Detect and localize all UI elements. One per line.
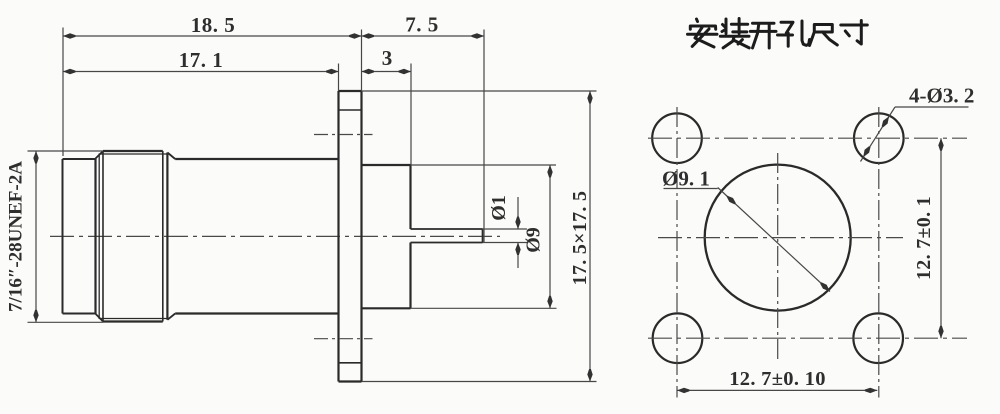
dia 9 ext lines <box>411 164 557 166</box>
thread section (7/16-28UNEF) <box>62 159 64 314</box>
center pin (dia 1) <box>411 228 483 230</box>
flange mounting hole edge lines <box>339 109 362 111</box>
ext line at pin end / 7.5 <box>483 30 485 244</box>
mounting hole bottom-left <box>653 313 703 363</box>
ext line left of thread <box>62 28 64 157</box>
title char An <box>688 19 718 47</box>
centerline left column <box>676 107 678 398</box>
svg-text:4-Ø3. 2: 4-Ø3. 2 <box>909 84 974 108</box>
dimension 17.1 <box>63 71 339 73</box>
svg-text:Ø9. 1: Ø9. 1 <box>662 167 710 191</box>
svg-text:12. 7±0. 10: 12. 7±0. 10 <box>729 368 826 390</box>
17.5x17.5 ext lines <box>362 90 597 92</box>
centerline bottom row <box>648 337 967 339</box>
title char Cun <box>841 21 868 45</box>
thread vertical dim line <box>35 151 37 322</box>
svg-text:3: 3 <box>382 46 393 70</box>
leader through top-right hole <box>861 107 896 162</box>
dimension 7.5 <box>362 35 485 37</box>
flange (square 17.5x17.5, side view) <box>337 91 339 382</box>
svg-text:17. 1: 17. 1 <box>179 48 224 72</box>
title char Zhuang <box>720 19 749 48</box>
arrow up-left on circle <box>726 195 736 204</box>
centerline middle row <box>658 237 903 239</box>
dimension 18.5 <box>63 35 362 37</box>
ext line at rear body end / 3 <box>410 64 412 166</box>
pin end cap <box>482 229 484 243</box>
dia1 dim arrows <box>517 197 519 229</box>
label underline <box>895 106 969 108</box>
svg-text:7/16″-28UNEF-2A: 7/16″-28UNEF-2A <box>6 161 27 312</box>
arrow down-right on circle <box>820 282 830 291</box>
ext line above flange right <box>361 30 363 92</box>
mounting hole bottom-right <box>853 313 903 363</box>
svg-text:Ø9: Ø9 <box>523 227 545 253</box>
dim 12.7+-0.10 (bottom) <box>677 389 877 391</box>
pin dia 1 ext lines <box>483 228 528 230</box>
svg-text:Ø1: Ø1 <box>488 195 510 221</box>
ext line above flange left <box>338 64 340 92</box>
coupling nut (hex) <box>94 159 96 314</box>
dia 9 dim line <box>549 165 551 308</box>
thread dim ext lines <box>28 150 104 152</box>
title char Kai <box>750 23 776 48</box>
rear body (dia 9) <box>362 164 411 166</box>
svg-text:12. 7±0. 1: 12. 7±0. 1 <box>913 196 935 280</box>
flange hole centerlines <box>314 134 373 136</box>
main body cylinder <box>175 158 338 160</box>
nut chamfers <box>96 151 104 159</box>
centerline top row <box>648 137 967 139</box>
centerline right column <box>878 107 880 398</box>
title char Chi <box>810 25 838 46</box>
mounting hole top-left <box>652 113 702 163</box>
mounting hole top-right <box>854 113 904 163</box>
dim 12.7+-0.1 (right) <box>940 138 942 338</box>
svg-text:18. 5: 18. 5 <box>191 13 236 37</box>
main horizontal centerline <box>50 235 500 237</box>
svg-text:17. 5×17. 5: 17. 5×17. 5 <box>569 191 591 286</box>
dimension 3 <box>362 71 412 73</box>
center hole dia 9.1 <box>705 165 851 311</box>
title char Kong <box>778 21 810 46</box>
svg-text:7. 5: 7. 5 <box>405 13 439 37</box>
17.5x17.5 dim line <box>589 91 591 382</box>
centerline middle column <box>777 153 779 363</box>
